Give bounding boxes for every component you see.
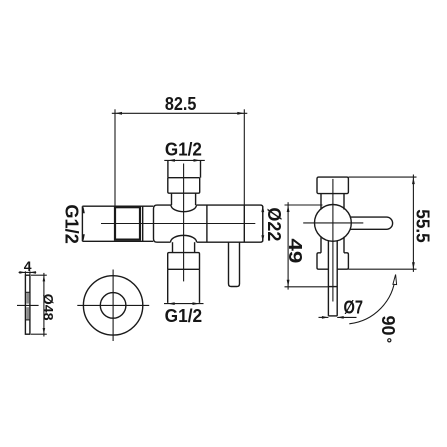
cover plate side view: [25, 275, 30, 334]
svg-text:49: 49: [285, 238, 305, 263]
90 degree arc: [349, 277, 395, 324]
collar divider: [142, 206, 144, 241]
svg-text:Ø7: Ø7: [344, 298, 364, 318]
dimension 82.5 line: [112, 112, 248, 114]
90 degree arrow: [393, 275, 397, 285]
svg-text:90: 90: [378, 315, 398, 335]
bottom joint dome: [171, 235, 197, 242]
side view lower nut: [317, 253, 348, 269]
top joint dome: [171, 205, 196, 212]
svg-text:Ø48: Ø48: [41, 294, 57, 321]
pipe bottom edge: [328, 315, 337, 317]
dimension 82.5 right arrow: [237, 112, 244, 115]
side view valve circle: [315, 205, 352, 242]
dimension D7 lines: [319, 316, 329, 318]
body horizontal centerline: [101, 223, 255, 225]
dimension 49 bottom extension: [285, 286, 329, 288]
svg-text:82.5: 82.5: [165, 94, 197, 114]
pipe step line: [328, 286, 337, 288]
side view upper neck: [320, 194, 322, 210]
top neck: [171, 193, 173, 205]
body inner line b: [243, 205, 245, 242]
plate centerline: [17, 304, 39, 306]
side view lower neck: [320, 237, 322, 253]
label G1/2 left arrows: [82, 206, 85, 213]
plate hub section fill: [26, 293, 29, 304]
plate crosshair vertical: [112, 270, 114, 342]
body inner line a: [206, 205, 208, 242]
side view outlet pipe: [327, 241, 329, 316]
dimension G1/2 top line: [164, 159, 205, 161]
body left pipe: [82, 206, 153, 241]
handle rod front view: [229, 242, 240, 286]
extension line left of 82.5: [114, 109, 116, 205]
svg-text:Ø22: Ø22: [264, 207, 284, 241]
bottom hex nut: [168, 253, 200, 270]
svg-text:G1/2: G1/2: [165, 306, 203, 326]
body rounded housing: [154, 205, 263, 242]
side view vertical centerline: [332, 179, 334, 302]
svg-text:55.5: 55.5: [412, 209, 432, 243]
top hex nut: [168, 178, 200, 194]
cover plate inner circle: [100, 293, 126, 319]
bottom thread tube: [168, 269, 200, 303]
svg-text:G1/2: G1/2: [61, 204, 81, 244]
dimension 49 line: [287, 202, 289, 289]
dimension G1/2 top left arrow: [168, 159, 175, 162]
bottom neck: [172, 242, 174, 252]
dimension G1/2 bottom line: [164, 303, 204, 305]
plate crosshair horizontal: [77, 304, 149, 306]
dimension 55.5 top extension: [348, 176, 416, 178]
side view horizontal centerline: [303, 222, 363, 224]
side view handle: [350, 217, 392, 229]
plate hub edges: [25, 291, 30, 293]
dimension 55.5 bottom extension: [348, 268, 416, 270]
cover plate front view outer circle: [83, 276, 142, 335]
top thread tube: [167, 161, 169, 178]
dimension D48: [31, 274, 47, 276]
side view top nut: [317, 177, 348, 194]
dimension 82.5 left arrow: [115, 112, 122, 115]
svg-text:G1/2: G1/2: [165, 140, 202, 160]
wall thread section (thick box): [115, 207, 140, 239]
extension line right of 82.5: [243, 109, 245, 205]
degree symbol: [388, 339, 391, 342]
fitting vertical centerline: [183, 164, 185, 282]
dimension G1/2 top right arrow: [194, 159, 201, 162]
dimension 55.5 line: [412, 175, 414, 272]
dimension D22 line: [262, 206, 264, 241]
dimension 49 top extension: [285, 204, 323, 206]
